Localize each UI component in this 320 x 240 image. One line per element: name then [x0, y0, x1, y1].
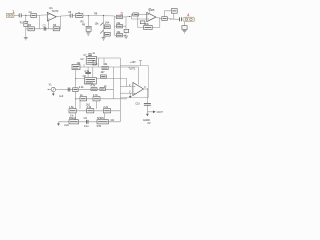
wire rail	[123, 17, 127, 35]
ground	[129, 93, 132, 98]
wire	[56, 89, 76, 91]
resistor R2	[31, 14, 37, 18]
wire feedback	[26, 16, 61, 29]
resistor R5	[76, 14, 83, 18]
node G	[75, 89, 76, 90]
capacitor C7	[88, 54, 92, 57]
ground	[146, 112, 149, 117]
wire	[167, 18, 179, 21]
IC U2	[86, 56, 96, 64]
resistor R7	[104, 25, 110, 29]
svg-text:4k7: 4k7	[101, 71, 106, 74]
wire	[126, 14, 133, 17]
svg-text:8DIP: 8DIP	[92, 64, 98, 67]
resistor R11	[114, 34, 122, 37]
wire	[87, 16, 89, 27]
svg-text:4.7k: 4.7k	[90, 84, 95, 87]
resistor R31	[101, 75, 107, 78]
node C	[103, 15, 104, 16]
resistor R8	[104, 32, 110, 36]
wire row B	[72, 66, 120, 68]
svg-text:X7R: X7R	[97, 125, 102, 128]
connector CON1	[7, 13, 15, 17]
resistor R22	[93, 97, 100, 101]
wire rail right	[119, 58, 121, 122]
resistor R18	[72, 64, 80, 69]
wire	[14, 14, 19, 16]
wire	[156, 17, 162, 19]
wire	[132, 16, 147, 19]
ground	[52, 92, 55, 96]
ground	[24, 38, 28, 40]
svg-text:1uF: 1uF	[59, 95, 64, 98]
resistor R14	[144, 26, 153, 30]
wire	[56, 16, 70, 17]
svg-text:0.3u: 0.3u	[85, 70, 90, 73]
svg-text:2.2k: 2.2k	[103, 106, 108, 109]
wire	[165, 11, 172, 17]
capacitor C6	[68, 88, 70, 92]
svg-text:OUT: OUT	[157, 110, 164, 114]
wire stub	[98, 58, 100, 67]
wire stub	[83, 64, 85, 67]
svg-text:1.5k: 1.5k	[69, 106, 74, 109]
wire rail mid	[113, 67, 115, 99]
wire	[184, 22, 186, 26]
op-amp U1A	[47, 12, 56, 21]
op-amp U1B	[147, 12, 156, 21]
resistor R1	[24, 22, 28, 27]
resistor R26	[69, 120, 79, 124]
wire	[25, 15, 27, 37]
wire row F	[76, 110, 121, 112]
diode D2	[100, 30, 103, 33]
capacitor C4	[171, 9, 177, 14]
wire row D	[76, 89, 114, 91]
svg-text:1N4: 1N4	[105, 21, 110, 24]
resistor R4	[53, 27, 59, 31]
resistor R28	[91, 88, 97, 91]
capacitor C9	[86, 120, 88, 124]
resistor R23	[69, 109, 76, 113]
resistor R25	[103, 109, 110, 113]
svg-text:2.2n: 2.2n	[64, 124, 69, 127]
svg-text:0.1u: 0.1u	[84, 125, 89, 128]
node OUT	[153, 111, 156, 114]
wire	[138, 13, 146, 15]
svg-text:SHDN: SHDN	[97, 117, 104, 120]
diode D1	[100, 23, 103, 26]
capacitor C8	[85, 67, 90, 78]
capacitor C3	[70, 14, 72, 18]
svg-text:GN: GN	[111, 119, 115, 122]
svg-text:C10: C10	[135, 102, 140, 105]
wire	[72, 15, 75, 17]
ground	[124, 36, 128, 38]
connector CON2	[183, 17, 195, 21]
capacitor C5	[180, 17, 182, 21]
resistor R15	[140, 21, 145, 24]
resistor R16	[162, 17, 168, 21]
wire row A	[97, 57, 121, 59]
ground	[102, 38, 106, 40]
node B	[88, 15, 89, 16]
wire stub	[96, 101, 98, 109]
power stub	[139, 61, 142, 66]
wire output	[144, 89, 148, 103]
svg-text:+15V: +15V	[130, 61, 136, 64]
svg-text:2.2k: 2.2k	[79, 86, 84, 89]
capacitor C10	[144, 103, 151, 105]
wire	[37, 14, 48, 17]
wire stub	[103, 58, 105, 65]
node H	[75, 98, 76, 99]
wire row G	[59, 121, 121, 123]
resistor R12	[124, 29, 129, 32]
ground	[183, 31, 187, 33]
resistor R21	[80, 97, 87, 101]
node A	[25, 15, 26, 16]
IC U4 box	[120, 66, 148, 98]
svg-text:TL072: TL072	[52, 10, 59, 13]
wire stub	[92, 67, 94, 78]
resistor R3	[28, 27, 34, 31]
svg-text:FREQ: FREQ	[69, 117, 76, 120]
resistor R17	[182, 26, 187, 30]
wire	[120, 86, 133, 88]
power pin	[149, 9, 152, 13]
wire	[184, 30, 186, 31]
wire	[147, 105, 155, 112]
node C	[147, 89, 148, 90]
IC U3	[85, 78, 97, 85]
wire	[120, 92, 133, 94]
wire feedback	[138, 14, 160, 27]
resistor R6	[86, 26, 91, 31]
source V1	[48, 87, 56, 91]
ground	[57, 122, 60, 126]
wire	[83, 15, 114, 17]
wire	[120, 79, 126, 87]
resistor R27	[97, 120, 109, 124]
svg-text:0V: 0V	[148, 122, 151, 125]
wire rail left	[75, 64, 77, 121]
resistor R10	[114, 25, 122, 28]
wire stub	[104, 113, 106, 120]
resistor R19	[102, 66, 108, 69]
wire row E	[76, 98, 127, 100]
wire rail	[103, 16, 105, 38]
resistor R13	[133, 13, 139, 16]
resistor R9	[114, 15, 122, 18]
wire stub	[79, 101, 81, 109]
wire riser	[39, 15, 41, 29]
resistor R29	[100, 87, 105, 90]
wire row C	[76, 78, 121, 80]
capacitor C2	[44, 27, 46, 31]
ground	[86, 33, 90, 35]
node F	[75, 78, 76, 79]
wire	[21, 14, 31, 16]
wire	[171, 13, 174, 19]
svg-text:2k2: 2k2	[86, 104, 91, 107]
node E	[129, 16, 130, 17]
wire stub	[47, 21, 49, 29]
wire rail	[113, 16, 115, 35]
resistor R20	[73, 88, 79, 92]
resistor R24	[87, 109, 94, 113]
capacitor C1	[19, 13, 21, 17]
node D	[170, 19, 171, 20]
op-amp U4	[133, 83, 144, 96]
svg-text:4.7k: 4.7k	[93, 94, 98, 97]
wire	[120, 67, 138, 85]
svg-text:TL071: TL071	[128, 67, 135, 70]
